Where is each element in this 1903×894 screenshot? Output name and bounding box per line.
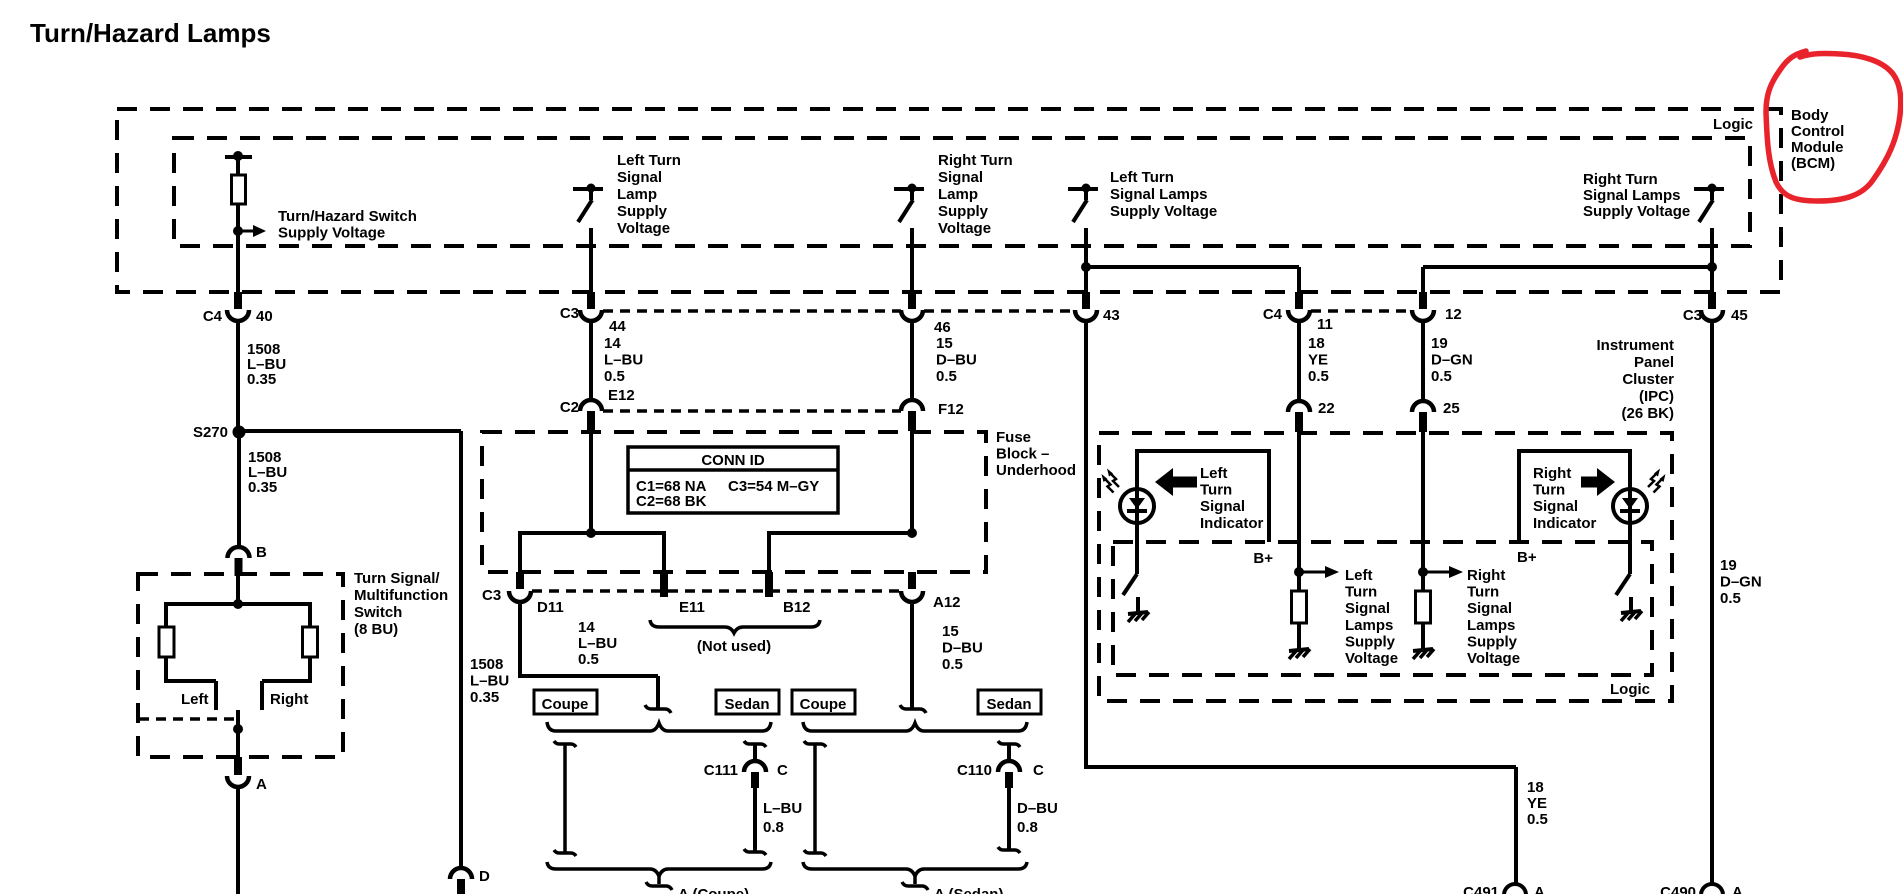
wire break right harness: [900, 705, 926, 713]
LED Right Turn Signal Indicator: [1613, 489, 1647, 523]
fuse element: [232, 175, 246, 204]
fuse block pin B12 (not used): [765, 572, 773, 597]
svg-text:Supply: Supply: [938, 203, 989, 220]
svg-text:Sedan: Sedan: [986, 696, 1031, 713]
svg-text:Supply: Supply: [617, 203, 668, 220]
switch Left Turn Signal Lamps feed driver: [1068, 184, 1098, 223]
svg-text:14: 14: [604, 335, 621, 352]
svg-text:Signal Lamps: Signal Lamps: [1110, 186, 1208, 203]
svg-text:19: 19: [1431, 335, 1448, 352]
svg-text:Right Turn: Right Turn: [1583, 171, 1658, 188]
switch Right Turn Signal Lamp output driver: [894, 184, 924, 223]
connector C2 pin E12 fuse block: [580, 400, 602, 411]
wire right group out: [913, 876, 917, 884]
svg-text:C3=54 M–GY: C3=54 M–GY: [728, 478, 819, 495]
svg-text:(IPC): (IPC): [1639, 388, 1674, 405]
node fuse block right split: [907, 528, 917, 538]
connector C4 dotted face 11-12: [1311, 309, 1412, 313]
wire 45 down to C490: [1710, 320, 1714, 884]
wire split horizontal right: [769, 531, 912, 535]
svg-text:Multifunction: Multifunction: [354, 587, 448, 604]
connector C4 pin 11: [1295, 292, 1303, 309]
svg-text:D11: D11: [537, 599, 564, 616]
node switch common: [233, 599, 243, 609]
wire pin 11 to IPC 22: [1297, 320, 1301, 401]
fuse block pin E11 (not used): [660, 572, 668, 597]
junction at fuse top: [233, 151, 243, 161]
svg-text:Signal: Signal: [1467, 600, 1512, 617]
svg-text:Left: Left: [1200, 465, 1228, 482]
svg-text:Right Turn: Right Turn: [938, 152, 1013, 169]
wire corner down pin 12: [1421, 267, 1425, 294]
svg-text:C110: C110: [957, 762, 992, 779]
BCM outer dashed box (Body Control Module): [117, 109, 1781, 292]
Fuse Block - Underhood box: [482, 432, 986, 572]
LED right light rays: [1648, 469, 1666, 493]
arrow right indicator: [1581, 468, 1615, 496]
wire left leg lower: [164, 657, 168, 681]
svg-text:0.5: 0.5: [942, 656, 963, 673]
connector D: [450, 868, 472, 879]
BCM inner dashed sub-box: [174, 138, 1750, 246]
svg-text:Voltage: Voltage: [938, 220, 991, 237]
svg-text:A (Coupe): A (Coupe): [678, 886, 749, 894]
arrow Right Turn Signal Lamps Supply Voltage: [1423, 571, 1449, 574]
connector A: [234, 757, 242, 775]
svg-text:B12: B12: [783, 599, 811, 616]
svg-text:Turn: Turn: [1467, 584, 1499, 601]
svg-text:(26 BK): (26 BK): [1621, 405, 1674, 422]
bracket sedan branch end right: [998, 847, 1020, 853]
wire fuse to connector C4-40: [236, 204, 240, 294]
connector C3 pin 46: [908, 292, 916, 309]
wire left group out: [657, 876, 661, 884]
wire C110 down: [1007, 787, 1011, 849]
svg-text:Turn/Hazard Switch: Turn/Hazard Switch: [278, 208, 417, 225]
connector B: [228, 547, 250, 558]
ground left indicator: [1128, 597, 1149, 622]
svg-text:C111: C111: [704, 762, 738, 779]
wire 44 to E12: [589, 320, 593, 400]
wire A12 down: [910, 601, 914, 708]
wire right LED vertical: [1628, 451, 1632, 574]
wire right indicator top rail: [1517, 449, 1632, 453]
connector C3 dotted face 46-43: [924, 309, 1073, 313]
svg-text:Supply Voltage: Supply Voltage: [1583, 203, 1690, 220]
svg-text:L–BU: L–BU: [578, 635, 617, 652]
svg-text:Signal: Signal: [1345, 600, 1390, 617]
fuse block pin D11: [516, 572, 524, 589]
svg-text:40: 40: [256, 308, 273, 325]
wire left indicator B+ drop: [1267, 449, 1271, 542]
ground left lamps: [1289, 623, 1310, 659]
svg-text:15: 15: [936, 335, 953, 352]
LED left light rays: [1102, 469, 1120, 493]
wire right leg: [308, 602, 312, 627]
wire F12 into fuse block: [910, 430, 914, 533]
svg-text:Turn Signal/: Turn Signal/: [354, 570, 440, 587]
svg-text:Left: Left: [1345, 567, 1373, 584]
connector C110 branch: [998, 741, 1020, 747]
brace harness split left top: [547, 722, 771, 731]
svg-text:D–BU: D–BU: [942, 640, 983, 657]
connector pin 43: [1082, 292, 1090, 309]
svg-text:D–BU: D–BU: [1017, 800, 1058, 817]
svg-text:A: A: [1732, 884, 1743, 894]
svg-text:(BCM): (BCM): [1791, 155, 1835, 172]
svg-text:25: 25: [1443, 400, 1460, 417]
svg-text:C491: C491: [1463, 884, 1499, 894]
node switch pole junction: [233, 724, 243, 734]
svg-text:C2: C2: [560, 399, 579, 416]
resistor left contact coil: [159, 627, 174, 657]
svg-text:C3: C3: [1683, 307, 1702, 324]
connector C111 pin C: [744, 761, 766, 772]
svg-text:F12: F12: [938, 401, 964, 418]
svg-text:YE: YE: [1527, 795, 1547, 812]
svg-text:L–BU: L–BU: [763, 800, 802, 817]
svg-text:Supply: Supply: [1345, 633, 1396, 650]
svg-text:Right: Right: [270, 691, 308, 708]
node Turn/Hazard Switch Supply Voltage tap: [233, 226, 243, 236]
svg-text:Lamps: Lamps: [1467, 617, 1515, 634]
svg-text:Voltage: Voltage: [1345, 650, 1398, 667]
wire left LED vertical: [1135, 451, 1139, 574]
svg-text:0.35: 0.35: [470, 689, 499, 706]
wire 25 down to logic: [1421, 430, 1425, 591]
connector C111 branch: [744, 741, 766, 747]
LED Left Turn Signal Indicator: [1120, 489, 1154, 523]
wire break left out: [646, 882, 672, 890]
brace harness split right bottom: [803, 862, 1027, 876]
wire right contact stub: [260, 681, 264, 710]
wire right indicator B+ drop: [1517, 449, 1521, 542]
brace harness split left bottom: [547, 862, 771, 876]
svg-text:(Not used): (Not used): [697, 638, 771, 655]
connector IPC pin 22: [1288, 401, 1310, 412]
svg-text:D–BU: D–BU: [936, 352, 977, 369]
wire driver down: [1710, 228, 1714, 294]
connector C3 dotted face 44-46: [603, 309, 901, 313]
node BCM left feed split: [1081, 262, 1091, 272]
svg-text:C4: C4: [1263, 306, 1283, 323]
svg-text:0.5: 0.5: [1431, 368, 1452, 385]
variant box Coupe: [534, 690, 597, 714]
node right lamps supply tap: [1418, 567, 1428, 577]
resistor left lamps load: [1292, 591, 1307, 623]
svg-text:Body: Body: [1791, 107, 1829, 124]
svg-text:0.5: 0.5: [604, 368, 625, 385]
arrow left indicator: [1155, 468, 1197, 496]
wire to D11: [518, 531, 522, 572]
svg-text:15: 15: [942, 623, 959, 640]
svg-text:Logic: Logic: [1610, 681, 1650, 698]
svg-text:0.8: 0.8: [763, 819, 784, 836]
svg-text:Turn/Hazard Lamps: Turn/Hazard Lamps: [30, 18, 271, 48]
wire C111 down: [753, 787, 757, 851]
wire corner down pin 11: [1297, 267, 1301, 294]
wire S270 branch horizontal: [237, 429, 461, 433]
resistor right lamps load: [1416, 591, 1431, 623]
wire switch top rail: [166, 602, 310, 606]
wire to B12: [767, 531, 771, 572]
svg-text:43: 43: [1103, 307, 1120, 324]
svg-text:S270: S270: [193, 424, 228, 441]
svg-text:Signal: Signal: [938, 169, 983, 186]
svg-text:0.5: 0.5: [1527, 811, 1548, 828]
svg-text:Lamp: Lamp: [938, 186, 978, 203]
svg-text:1508: 1508: [470, 656, 503, 673]
svg-text:Cluster: Cluster: [1622, 371, 1674, 388]
svg-text:Right: Right: [1467, 567, 1505, 584]
svg-text:14: 14: [578, 619, 595, 636]
connector C4 pin 12: [1419, 292, 1427, 309]
svg-text:Sedan: Sedan: [724, 696, 769, 713]
wire right leg lower: [308, 657, 312, 681]
node BCM right feed split: [1707, 262, 1717, 272]
wire bottom horizontal to C491: [1086, 765, 1516, 769]
wire driver to C3-44: [589, 228, 593, 294]
variant box Sedan: [716, 690, 779, 714]
wire break left harness: [645, 705, 671, 713]
Turn Signal/Multifunction Switch box: [138, 574, 343, 757]
connector IPC pin 25: [1412, 401, 1434, 412]
Instrument Panel Cluster box: [1099, 433, 1672, 701]
svg-text:Switch: Switch: [354, 604, 402, 621]
IPC Logic inner dashed box: [1113, 542, 1652, 675]
svg-text:Voltage: Voltage: [617, 220, 670, 237]
svg-text:0.35: 0.35: [247, 371, 276, 388]
svg-text:44: 44: [609, 318, 626, 335]
svg-text:Lamp: Lamp: [617, 186, 657, 203]
svg-text:Signal: Signal: [1200, 498, 1245, 515]
svg-text:Underhood: Underhood: [996, 462, 1076, 479]
svg-text:Left Turn: Left Turn: [1110, 169, 1174, 186]
svg-text:Coupe: Coupe: [542, 696, 589, 713]
svg-text:D–GN: D–GN: [1431, 352, 1473, 369]
svg-text:C4: C4: [203, 308, 223, 325]
svg-text:0.5: 0.5: [1308, 368, 1329, 385]
svg-text:A: A: [1534, 884, 1545, 894]
connector dotted face E12-F12: [603, 409, 901, 413]
svg-text:0.8: 0.8: [1017, 819, 1038, 836]
svg-text:C: C: [777, 762, 788, 779]
svg-text:Indicator: Indicator: [1200, 515, 1264, 532]
svg-text:L–BU: L–BU: [470, 673, 509, 690]
wire driver to 46: [910, 228, 914, 294]
svg-text:Turn: Turn: [1345, 584, 1377, 601]
wire BCM split to pin 12: [1423, 265, 1712, 269]
fuse F1 top rail: [225, 155, 252, 159]
wire D11 down: [518, 601, 522, 676]
svg-text:D: D: [479, 868, 490, 885]
wire left contact stub: [214, 681, 218, 710]
svg-text:19: 19: [1720, 557, 1737, 574]
connector C110 pin C: [998, 761, 1020, 772]
svg-text:Signal: Signal: [1533, 498, 1578, 515]
svg-text:Turn: Turn: [1533, 482, 1565, 499]
bracket sedan branch end: [744, 849, 766, 855]
svg-text:Voltage: Voltage: [1467, 650, 1520, 667]
connector C491: [1504, 884, 1526, 894]
svg-text:46: 46: [934, 319, 951, 336]
svg-text:C: C: [1033, 762, 1044, 779]
wire D11 jog down: [656, 676, 660, 708]
svg-text:Right: Right: [1533, 465, 1571, 482]
variant box Coupe right: [792, 690, 855, 714]
wire left leg: [164, 602, 168, 627]
wire 22 down to logic: [1297, 430, 1301, 591]
wire B into switch: [236, 576, 240, 604]
svg-text:D–GN: D–GN: [1720, 574, 1762, 591]
svg-text:18: 18: [1527, 779, 1544, 796]
svg-text:Left: Left: [181, 691, 209, 708]
svg-text:A (Sedan): A (Sedan): [934, 886, 1003, 894]
wire C4-40 to S270: [236, 320, 240, 432]
wire break right out: [902, 882, 928, 890]
svg-text:B+: B+: [1517, 549, 1537, 566]
switch right indicator driver: [1616, 574, 1630, 595]
wire S270 to connector B: [237, 432, 241, 547]
svg-text:Indicator: Indicator: [1533, 515, 1597, 532]
arrow Left Turn Signal Lamps Supply Voltage: [1299, 571, 1325, 574]
svg-text:YE: YE: [1308, 352, 1328, 369]
wire E12 into fuse block: [589, 430, 593, 533]
svg-text:Coupe: Coupe: [800, 696, 847, 713]
brace harness split right top: [803, 722, 1027, 731]
arrow Turn/Hazard Switch Supply Voltage: [238, 230, 256, 233]
svg-text:E11: E11: [679, 599, 705, 616]
node left lamps supply tap: [1294, 567, 1304, 577]
svg-text:0.35: 0.35: [248, 479, 277, 496]
svg-text:C3: C3: [482, 587, 501, 604]
svg-text:Turn: Turn: [1200, 482, 1232, 499]
svg-text:Instrument: Instrument: [1596, 337, 1674, 354]
svg-text:A: A: [256, 776, 267, 793]
wire left indicator top rail: [1135, 449, 1271, 453]
svg-text:B+: B+: [1253, 550, 1273, 567]
ground right lamps: [1413, 623, 1434, 659]
svg-text:45: 45: [1731, 307, 1748, 324]
svg-text:11: 11: [1317, 316, 1333, 333]
bracket coupe branch right: [804, 741, 826, 747]
wire switch pole: [236, 710, 240, 757]
svg-text:CONN ID: CONN ID: [701, 452, 765, 469]
wire down to C491: [1514, 767, 1518, 884]
wire branch down to connector D: [459, 431, 463, 868]
switch left indicator driver: [1123, 574, 1137, 595]
svg-text:C2=68 BK: C2=68 BK: [636, 493, 707, 510]
svg-text:Lamps: Lamps: [1345, 617, 1393, 634]
svg-text:0.5: 0.5: [578, 651, 599, 668]
connector C4 pin 40: [234, 292, 242, 309]
wire left contact horizontal: [164, 679, 216, 683]
variant box Sedan right: [978, 690, 1041, 714]
connector C3 pin 45: [1708, 292, 1716, 309]
svg-text:Left Turn: Left Turn: [617, 152, 681, 169]
svg-text:C490: C490: [1660, 884, 1696, 894]
svg-text:18: 18: [1308, 335, 1325, 352]
wire BCM split to pin 11: [1086, 265, 1299, 269]
svg-text:12: 12: [1445, 306, 1462, 323]
svg-text:0.5: 0.5: [936, 368, 957, 385]
wire 46 to F12: [910, 320, 914, 400]
connector C3 pin 44: [587, 292, 595, 309]
wire A down off page: [236, 786, 240, 894]
resistor right contact coil: [303, 627, 318, 657]
splice S270: [233, 426, 246, 439]
svg-text:Signal Lamps: Signal Lamps: [1583, 187, 1681, 204]
svg-text:A12: A12: [933, 594, 961, 611]
red hand-drawn circle around BCM label: [1766, 51, 1901, 201]
wire 43 down left of IPC: [1084, 320, 1088, 769]
connector pin F12 fuse block: [901, 400, 923, 411]
svg-text:Fuse: Fuse: [996, 429, 1031, 446]
svg-text:Signal: Signal: [617, 169, 662, 186]
svg-text:22: 22: [1318, 400, 1335, 417]
fuse block pin A12: [908, 572, 916, 589]
svg-text:Control: Control: [1791, 123, 1844, 140]
mechanical link dashed line: [139, 717, 238, 721]
svg-text:B: B: [256, 544, 267, 561]
svg-text:Block –: Block –: [996, 446, 1049, 463]
svg-text:Panel: Panel: [1634, 354, 1674, 371]
switch Left Turn Signal Lamp output driver: [573, 184, 603, 223]
svg-text:L–BU: L–BU: [604, 352, 643, 369]
fuse block bottom connector dotted face: [532, 589, 900, 593]
svg-text:Logic: Logic: [1713, 116, 1753, 133]
svg-text:Supply Voltage: Supply Voltage: [1110, 203, 1217, 220]
wire fuse top stub: [236, 157, 240, 175]
svg-text:0.5: 0.5: [1720, 590, 1741, 607]
switch Right Turn Signal Lamps feed driver: [1694, 184, 1724, 223]
wire right contact horizontal: [262, 679, 312, 683]
node fuse block left split: [586, 528, 596, 538]
ground right indicator: [1621, 597, 1642, 621]
svg-text:C3: C3: [560, 305, 579, 322]
CONN ID table: [628, 447, 838, 513]
svg-text:Supply: Supply: [1467, 633, 1518, 650]
wire split horizontal left: [520, 531, 664, 535]
svg-text:E12: E12: [608, 387, 635, 404]
wire pin 12 to IPC 25: [1421, 320, 1425, 401]
wire driver down: [1084, 228, 1088, 294]
wire D11 horizontal jog: [518, 674, 658, 678]
svg-text:Supply Voltage: Supply Voltage: [278, 224, 385, 241]
svg-text:Module: Module: [1791, 139, 1844, 156]
brace not-used pins: [650, 620, 820, 633]
svg-text:(8 BU): (8 BU): [354, 621, 398, 638]
connector C490: [1701, 884, 1723, 894]
wire to E11: [662, 531, 666, 572]
bracket coupe branch left: [554, 741, 576, 747]
